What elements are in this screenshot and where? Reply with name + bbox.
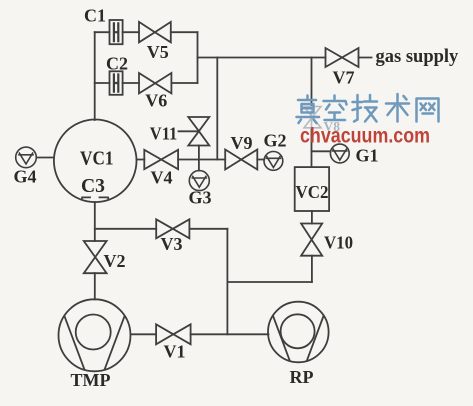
wire [179, 130, 199, 132]
valve V1 [156, 324, 191, 344]
svg-text:V1: V1 [164, 341, 186, 361]
svg-text:G1: G1 [356, 145, 379, 165]
valve V6 [139, 73, 171, 93]
watermark hanzi zhen [297, 96, 320, 124]
wire [37, 157, 54, 159]
gauge G2 [264, 152, 283, 171]
wire [131, 333, 269, 335]
svg-text:G4: G4 [14, 166, 37, 186]
svg-text:C3: C3 [81, 175, 105, 197]
svg-text:VC2: VC2 [296, 182, 329, 202]
svg-text:G2: G2 [264, 130, 287, 150]
watermark hanzi wang [417, 99, 439, 122]
wire [197, 32, 199, 83]
svg-text:V10: V10 [324, 232, 353, 252]
svg-text:V3: V3 [161, 234, 183, 254]
valve V3 [156, 219, 189, 238]
wire [226, 229, 228, 334]
wire [311, 58, 313, 168]
wire [198, 57, 372, 59]
pump RP [268, 302, 329, 363]
svg-text:TMP: TMP [71, 370, 111, 390]
svg-text:V4: V4 [151, 168, 173, 188]
valve V4 [144, 150, 178, 169]
svg-text:chvacuum.com: chvacuum.com [300, 124, 430, 147]
valve V11 [188, 117, 209, 146]
svg-text:gas supply: gas supply [376, 47, 460, 67]
wire [95, 228, 228, 230]
svg-text:VC1: VC1 [80, 147, 114, 169]
wire [311, 211, 313, 224]
svg-text:V9: V9 [231, 133, 253, 153]
wire [94, 32, 96, 120]
capillary C1 [110, 20, 123, 44]
wire [198, 146, 200, 171]
wire [95, 31, 198, 33]
svg-text:C1: C1 [84, 5, 106, 25]
svg-text:C2: C2 [106, 53, 128, 73]
gauge G4 [16, 147, 37, 168]
wire [227, 281, 312, 283]
gauge G3 [189, 171, 209, 191]
valve V7 [326, 48, 359, 67]
wire [312, 150, 331, 152]
pump TMP [59, 299, 131, 371]
svg-text:V2: V2 [104, 251, 126, 271]
svg-text:V11: V11 [150, 124, 178, 144]
svg-text:G3: G3 [189, 188, 212, 208]
gauge G1 [330, 144, 349, 163]
valve V9 [225, 150, 257, 170]
svg-text:RP: RP [290, 367, 314, 387]
wire [95, 82, 198, 84]
svg-text:V5: V5 [147, 42, 169, 62]
chamber VC1 [54, 120, 137, 203]
valve V8 [304, 106, 321, 128]
svg-text:V7: V7 [333, 67, 355, 87]
chamber VC2 [295, 167, 329, 211]
valve V10 [301, 224, 322, 256]
watermark hanzi ji [353, 95, 378, 122]
wire [216, 58, 218, 160]
wire [94, 202, 96, 299]
svg-text:V6: V6 [145, 90, 167, 110]
crucible C3 [82, 197, 109, 200]
watermark hanzi kong [324, 96, 347, 121]
capillary C2 [110, 71, 123, 95]
valve V5 [139, 22, 171, 42]
valve V2 [84, 241, 107, 273]
watermark hanzi shu [386, 94, 409, 122]
wire [136, 159, 264, 161]
wire [311, 256, 313, 282]
